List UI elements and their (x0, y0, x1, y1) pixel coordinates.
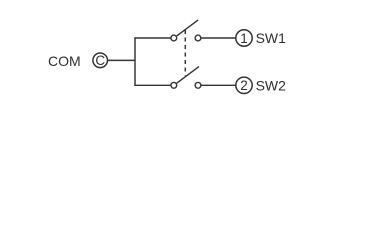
SW2 lever (177, 67, 199, 84)
wire C to junction (108, 59, 136, 61)
svg-text:COM: COM (48, 53, 81, 69)
SW1 pole contact (171, 35, 177, 41)
terminal 2 (236, 77, 252, 93)
SW1 throw contact (195, 35, 201, 41)
SW1 lever (177, 20, 199, 36)
svg-text:SW1: SW1 (256, 30, 287, 46)
wire SW2 contact to terminal 2 (201, 84, 235, 86)
wire SW1 contact to terminal 1 (201, 37, 235, 39)
SW2 pole contact (171, 82, 177, 88)
svg-text:2: 2 (240, 78, 248, 93)
svg-text:SW2: SW2 (256, 77, 287, 93)
gang link dashed (184, 30, 186, 76)
wire junction vertical (134, 37, 136, 86)
SW2 throw contact (195, 82, 201, 88)
wire to SW1 pole (134, 37, 171, 39)
svg-text:C: C (95, 53, 105, 68)
svg-text:1: 1 (240, 31, 248, 46)
terminal 1 (236, 30, 252, 46)
wire to SW2 pole (134, 84, 171, 86)
terminal C (common) (93, 53, 108, 68)
